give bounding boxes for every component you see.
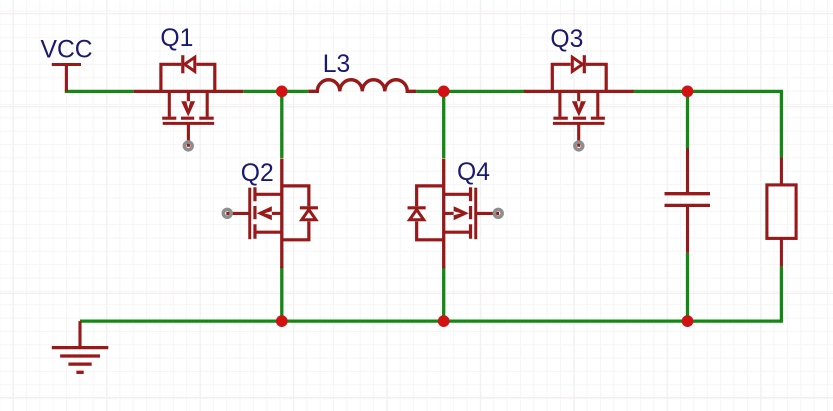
ground bar 4 [76,371,83,374]
Q2 gate plate [248,188,251,240]
node SW2 bottom junction [438,315,450,327]
Q3 diode cathode bar [583,55,586,73]
C1 top lead [686,148,689,192]
Q4 diode triangle [410,210,424,220]
node SW1 top junction [276,86,288,98]
Q3 body diode loop [552,64,606,91]
Q2 body diode loop [282,186,309,240]
Q2 pin leads [280,159,283,269]
Q3 source stub [596,91,599,116]
ground [52,321,109,372]
Q1 no-connect pin [184,142,192,150]
wire node VOUT down to C1 [686,91,689,148]
R1 body [767,185,796,239]
svg-text:Q3: Q3 [550,26,583,53]
Q3 body stub [577,91,580,102]
Q4 body diode loop [417,186,444,240]
Q4 body arrow notch [454,211,462,215]
Q3 gate lead [577,123,580,146]
Q1 pin leads [134,90,244,93]
ground bar 3 [68,362,91,365]
Q1 diode triangle [185,57,195,71]
wire node SW2 to Q3 [444,90,526,93]
C1 top plate [665,192,711,195]
Q4 no-connect pin [494,209,502,217]
Q2 channel bars [253,187,256,239]
wire Q4 to bottom node [442,266,445,321]
ground stem [78,321,81,348]
Q2 body arrow [257,206,272,220]
Q1 channel bars [162,117,214,120]
Q2 gate lead [226,212,249,215]
svg-text:L3: L3 [323,51,350,78]
wire node SW1 down to Q2 [280,91,283,158]
wire node VOUT to right corner [688,91,782,93]
svg-text:Q2: Q2 [241,160,274,187]
power flag VCC [52,65,81,92]
node SW2 top junction [438,86,450,98]
R1 bottom lead [780,238,783,266]
Q2 diode triangle [302,210,316,220]
Q1 body arrow notch [186,101,190,109]
node VOUT junction [682,86,694,98]
R1 top lead [780,158,783,186]
svg-text:Q4: Q4 [457,159,490,186]
Q2 body stub [271,212,282,215]
Q4 diode cathode bar [408,206,426,209]
Q4 source stub [444,193,469,196]
ground bar 2 [60,354,100,357]
Q2 drain stub [256,231,281,234]
Q1 body arrow [181,101,195,116]
Q1 body stub [187,91,190,102]
wire Q2 to bottom node [280,266,283,321]
Q3 diode triangle [572,57,582,71]
Q3 gate plate [553,122,605,125]
Q3 channel bars [553,117,605,120]
wire L3 to node SW2 [416,90,443,93]
Q3 drain stub [558,91,561,116]
Q3 body arrow [572,101,586,116]
C1 bottom plate [665,204,711,207]
Q4 gate lead [476,212,499,215]
Q2 source stub [256,193,281,196]
wire Q3 to node VOUT [633,90,688,93]
Q1 drain stub [206,91,209,116]
Q4 pin leads [442,159,445,269]
Q1 diode cathode bar [181,55,184,73]
transistor Q3 [524,55,634,150]
transistor Q2 [223,159,318,269]
inductor L3 [308,80,416,92]
wire node SW1 to L3 [282,90,309,93]
wire node SW2 down to Q4 [442,91,445,158]
Q1 body diode loop [161,64,215,91]
wire bottom ground rail [80,319,781,322]
svg-text:Q1: Q1 [160,25,193,52]
Q4 body arrow [454,206,469,220]
node SW1 bottom junction [276,315,288,327]
Q1 source stub [168,91,171,116]
VCC stub [65,65,68,92]
node GND-C junction [682,315,694,327]
wire R1 to bottom rail [780,267,783,323]
Q2 no-connect pin [223,209,231,217]
wire VCC to Q1 [65,90,134,93]
ground bar 1 [52,346,109,349]
Q4 drain stub [444,231,469,234]
Q2 body arrow notch [264,211,272,215]
wire C1 to bottom node [686,253,689,321]
Q1 gate lead [187,123,190,146]
svg-text:VCC: VCC [41,36,93,63]
wire Q1 to node SW1 [243,90,282,93]
Q3 pin leads [524,90,634,93]
Q2 diode cathode bar [300,206,318,209]
VCC bar [52,63,81,66]
Q4 body stub [444,212,455,215]
transistor Q1 [134,55,244,150]
Q4 channel bars [469,187,472,239]
capacitor C1 [665,148,711,253]
C1 bottom lead [686,207,689,253]
Q1 gate plate [163,122,215,125]
Q4 gate plate [474,188,477,240]
Q3 body arrow notch [577,101,581,109]
Q3 no-connect pin [575,142,583,150]
transistor Q4 [408,159,503,269]
wire right branch down to R1 [780,92,783,158]
resistor R1 [767,158,796,267]
